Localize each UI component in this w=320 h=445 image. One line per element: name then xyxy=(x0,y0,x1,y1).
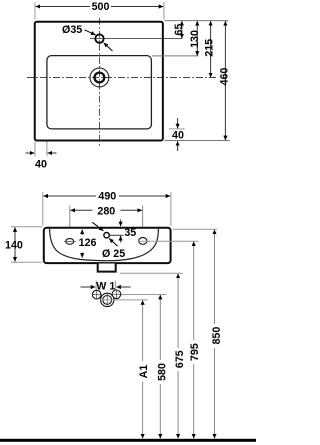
left fixing hole oval xyxy=(66,239,74,245)
dimension 500 line right segment xyxy=(111,6,163,8)
dimension 460 xyxy=(224,21,226,78)
dimension 35 upper arrow xyxy=(120,220,122,227)
extension line to A1 dim xyxy=(100,299,148,301)
tap hole front view xyxy=(104,233,109,238)
svg-text:40: 40 xyxy=(172,130,184,142)
dimension 35 lower arrow xyxy=(120,236,122,243)
extension line left of 500 dim xyxy=(34,2,36,20)
dimension 795 xyxy=(193,242,195,341)
horizontal centerline through tap hole xyxy=(90,38,94,40)
W1 extension line right xyxy=(114,281,116,291)
dimension 130 xyxy=(196,21,198,38)
top reference extension line (right column) xyxy=(165,20,229,22)
extension line right of 500 dim xyxy=(163,2,165,20)
leader arrow to tap hole from lower right xyxy=(104,43,113,51)
dimension 40 right arrows xyxy=(177,118,179,128)
dimension 490 line xyxy=(43,195,96,197)
dimension 126 upper arrow xyxy=(81,230,83,235)
leader arrow from Ø35 label to tap hole xyxy=(85,30,96,35)
dimension 280 line xyxy=(70,209,92,211)
svg-text:580: 580 xyxy=(156,363,168,381)
dimension 40 arrows xyxy=(26,152,35,154)
trap left screw circle xyxy=(92,290,101,299)
dimension 40 (bottom left, plan) extension lines xyxy=(34,142,36,157)
dimension 140 line xyxy=(14,227,16,244)
basin inner bowl rectangle xyxy=(47,56,151,129)
svg-text:490: 490 xyxy=(98,190,116,202)
extension line from rim top (850) xyxy=(173,228,217,230)
tap hole circle Ø35 xyxy=(95,34,103,42)
leader arrow from Ø25 label to tap hole xyxy=(109,238,118,246)
horizontal centerline through drain xyxy=(27,77,217,79)
svg-text:35: 35 xyxy=(124,227,136,239)
svg-text:A1: A1 xyxy=(138,365,150,379)
svg-text:500: 500 xyxy=(92,1,110,13)
svg-text:130: 130 xyxy=(189,30,201,48)
dimension 850 xyxy=(214,230,216,325)
svg-text:460: 460 xyxy=(218,68,230,86)
extension line left of 490 dim xyxy=(42,192,44,225)
svg-text:675: 675 xyxy=(174,350,186,368)
trap right screw circle xyxy=(112,290,121,299)
svg-text:215: 215 xyxy=(204,39,216,57)
floor line xyxy=(0,439,256,442)
trap drain pipe circles xyxy=(101,293,114,306)
svg-text:850: 850 xyxy=(211,327,223,345)
extension line right of 490 dim xyxy=(170,192,172,226)
basin outer rectangle xyxy=(35,22,163,141)
dimension 215 xyxy=(210,21,212,49)
dimension 40 (right side, plan) extension line upper xyxy=(169,128,185,130)
svg-text:Ø35: Ø35 xyxy=(62,24,82,36)
basin body front view xyxy=(44,228,171,263)
drain outer circle xyxy=(90,68,109,87)
dimension A1 xyxy=(142,300,144,361)
svg-text:140: 140 xyxy=(5,240,23,252)
extension line from trap box bottom (675) xyxy=(120,272,183,274)
tap hole centerline stub xyxy=(110,234,124,236)
dimension 126 lower arrow xyxy=(81,252,83,257)
extension line from right oval (795) xyxy=(138,240,199,242)
dimension 65 xyxy=(181,21,183,30)
extension line to 580 dim xyxy=(122,294,167,296)
leader arrow upper-left to tap hole xyxy=(92,222,103,231)
svg-text:65: 65 xyxy=(173,24,185,36)
extension line right of 280 dim xyxy=(142,206,144,237)
extension line bottom (460 dim) xyxy=(165,140,231,142)
inner bowl profile xyxy=(50,229,159,261)
extension line left of 280 dim xyxy=(69,206,71,238)
dimension 580 xyxy=(159,295,161,360)
dimension 675 xyxy=(177,274,179,348)
dimension 140 extension bottom xyxy=(11,261,43,263)
svg-text:Ø 25: Ø 25 xyxy=(102,248,125,260)
svg-text:40: 40 xyxy=(35,159,47,171)
dimension 500 line left segment xyxy=(36,6,90,8)
svg-text:280: 280 xyxy=(97,205,115,217)
W1 dim arrows xyxy=(81,286,96,288)
svg-text:126: 126 xyxy=(79,237,97,249)
W1 extension line left xyxy=(95,281,97,291)
svg-text:795: 795 xyxy=(189,343,201,361)
extension line inner-rect top to 130 dim xyxy=(152,55,199,57)
trap outlet box xyxy=(98,264,116,272)
right fixing hole oval xyxy=(139,238,147,245)
drain inner ring xyxy=(95,73,105,83)
dimension 140 extension top xyxy=(11,226,43,228)
vertical centerline through basin xyxy=(99,18,101,148)
